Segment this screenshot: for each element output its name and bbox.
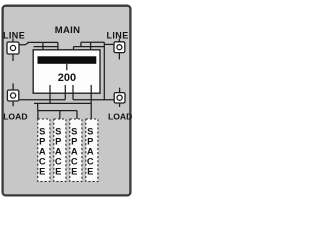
svg-text:E: E <box>87 165 93 176</box>
wire: main bottom terminal 1 <box>49 85 51 103</box>
LOAD lug left <box>7 83 18 106</box>
wire: main top terminal 4 <box>90 42 92 56</box>
wire: right top rail B <box>74 46 105 48</box>
LOAD lug right <box>114 88 125 107</box>
wire: drop to space 1 <box>37 111 39 119</box>
wire: lower branch rail <box>38 110 77 112</box>
main breaker box U1 <box>33 50 100 93</box>
main breaker pointer stub <box>66 64 68 70</box>
wire: left top rail A <box>28 41 58 43</box>
svg-text:200: 200 <box>58 72 76 84</box>
svg-text:E: E <box>71 165 77 176</box>
wire: drop to space 3 <box>76 111 78 119</box>
space 2 dashed box <box>54 119 66 182</box>
wire: bus rail drop <box>37 103 39 110</box>
label SPACE 1 <box>39 125 46 176</box>
label SPACE 4 <box>87 125 94 176</box>
svg-text:E: E <box>55 165 61 176</box>
LINE lug right <box>114 39 125 60</box>
wire: left LINE lug to ladder <box>19 42 29 44</box>
space 4 dashed box <box>86 119 98 182</box>
svg-text:LOAD: LOAD <box>3 111 27 121</box>
wire: main bottom terminal 3 <box>72 85 74 100</box>
wire: drop to space 2 <box>59 111 61 119</box>
LINE lug left <box>7 39 19 61</box>
wire: right LOAD lug lead <box>73 99 114 101</box>
enclosure outline <box>3 6 131 196</box>
wire: main bottom terminal 2 <box>64 85 66 100</box>
wire: right top rail A <box>81 42 104 46</box>
space 3 dashed box <box>70 119 82 182</box>
label SPACE 3 <box>71 125 78 176</box>
wire: main top terminal 3 <box>73 47 75 57</box>
svg-text:MAIN: MAIN <box>55 25 80 36</box>
main breaker handle bar <box>38 56 97 64</box>
svg-text:E: E <box>39 165 45 176</box>
wire: right LINE lug lead <box>104 43 114 45</box>
svg-text:LOAD: LOAD <box>108 111 132 121</box>
wire: right feed-through drop <box>103 42 105 99</box>
wire: main bottom terminal 4 drop to space 4 <box>90 85 92 119</box>
svg-text:LINE: LINE <box>3 30 25 40</box>
svg-text:LINE: LINE <box>107 31 129 41</box>
wire: branch bus rail <box>34 102 91 104</box>
wire: main top terminal 1 <box>42 42 44 56</box>
wire: left LOAD lug lead <box>19 99 66 101</box>
label SPACE 2 <box>55 125 62 176</box>
wire: main top terminal 2 <box>57 42 59 56</box>
wire: left top rail B <box>34 46 58 48</box>
space 1 dashed box <box>38 119 50 182</box>
